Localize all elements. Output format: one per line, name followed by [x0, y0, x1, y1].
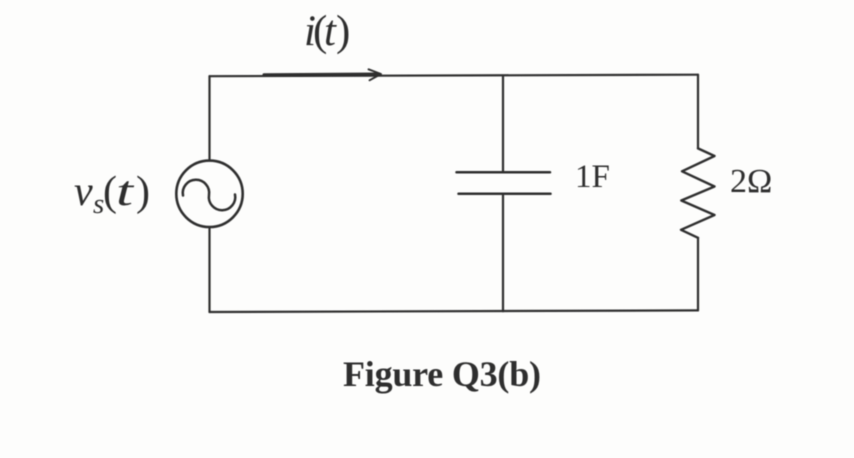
wire left upper: [208, 76, 210, 160]
resistor R1: [681, 148, 715, 237]
wire bottom: [210, 310, 699, 312]
svg-text:2Ω: 2Ω: [730, 163, 772, 200]
wire right upper: [697, 75, 699, 149]
label vs(t): [74, 169, 150, 220]
wire middle lower: [502, 194, 504, 312]
label i(t): [304, 8, 350, 55]
wire right lower: [697, 238, 699, 311]
svg-text:1F: 1F: [575, 159, 610, 195]
svg-text:): ): [336, 8, 350, 55]
current arrow i(t): [264, 69, 381, 80]
svg-text:v: v: [74, 169, 93, 215]
caption Figure Q3(b): [343, 354, 541, 394]
wire top: [210, 75, 699, 77]
svg-text:t: t: [116, 169, 135, 215]
svg-text:Figure Q3(b): Figure Q3(b): [343, 354, 541, 394]
value label 2Ω: [730, 163, 772, 200]
svg-text:(: (: [103, 169, 117, 215]
wire left lower: [208, 228, 210, 312]
voltage source VS: [176, 161, 242, 227]
wire middle upper: [502, 76, 504, 173]
capacitor C1: [457, 172, 551, 193]
value label 1F: [575, 159, 610, 195]
svg-text:): ): [136, 169, 150, 215]
